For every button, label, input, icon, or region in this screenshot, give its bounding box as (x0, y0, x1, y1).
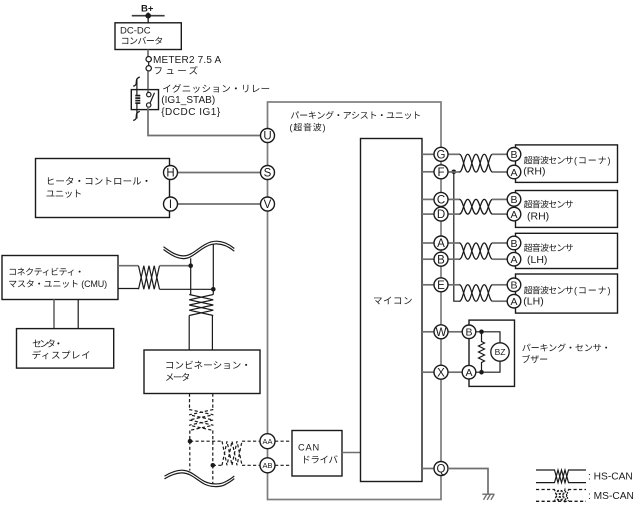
pin C (434, 192, 448, 206)
wire sensor corner RH bottom right (492, 171, 507, 173)
pin D (434, 207, 448, 221)
wire buzzer A to BZ (476, 361, 500, 372)
wire microcomputer to D (422, 213, 434, 215)
svg-text:超音波センサ: 超音波センサ (524, 283, 574, 296)
junction B+ dot (145, 13, 151, 19)
junction buzzer top (479, 330, 484, 335)
wire CMU to display left (53, 300, 55, 329)
svg-text:ディスプレイ: ディスプレイ (32, 348, 91, 362)
svg-text:D: D (437, 209, 445, 221)
wire twist to node1 (160, 265, 191, 267)
svg-text:(RH): (RH) (527, 210, 549, 222)
pin sensor LH A (507, 252, 521, 266)
svg-text:超音波センサ: 超音波センサ (524, 197, 574, 210)
legend MS-CAN lines (536, 490, 586, 502)
pin AB (260, 458, 275, 473)
wire between fuse terminals (148, 60, 150, 68)
wire fuse to relay (147, 71, 149, 89)
wire MS-CAN meter right (212, 394, 214, 410)
svg-text:ユニット: ユニット (46, 186, 83, 200)
wire continuation wavy top (164, 241, 235, 258)
svg-text:マイコン: マイコン (373, 293, 413, 307)
resistor in buzzer (479, 332, 485, 372)
twisted pair CMU (139, 266, 160, 290)
wire continuation hook bottom (133, 111, 140, 120)
pin buzzer B (462, 325, 476, 339)
svg-text:METER2 7.5 A: METER2 7.5 A (153, 55, 222, 66)
wire MS-CAN left below (189, 441, 191, 470)
svg-text:E: E (437, 280, 445, 292)
twisted pair bus vertical (189, 295, 213, 316)
twisted pair MS-CAN to AA AB (222, 441, 242, 465)
svg-text:A: A (510, 167, 517, 179)
wire microcomputer to F (422, 171, 434, 173)
wire AA to CAN driver (275, 440, 292, 442)
wire sensor RH top right (492, 198, 507, 200)
pin Q (434, 462, 448, 476)
wire CMU CAN-H (118, 265, 139, 267)
svg-text:C: C (437, 195, 445, 207)
wire sensor LH top right (492, 242, 507, 244)
legend HS-CAN lines (536, 470, 586, 483)
junction node CAN-H (188, 263, 193, 268)
wire buzzer B to BZ (476, 332, 500, 343)
pin E (434, 278, 448, 292)
svg-text:(LH): (LH) (523, 296, 543, 308)
wire DC-DC to fuse (147, 50, 149, 57)
microcomputer box (361, 139, 423, 482)
parking assist unit box (268, 102, 442, 500)
wire CMU CAN-L (118, 288, 139, 290)
buzzer BZ (491, 343, 509, 361)
svg-text:B: B (465, 327, 472, 339)
pin sensor corner RH B (507, 148, 521, 162)
wire B+ tick bar (132, 15, 165, 17)
wire sensor RH bottom right (492, 213, 507, 215)
relay K1 coil (135, 96, 140, 104)
svg-text:B: B (437, 254, 445, 266)
svg-text:超音波センサ: 超音波センサ (524, 153, 574, 166)
wire microcomputer to G (422, 153, 434, 155)
svg-text:CAN: CAN (298, 443, 319, 453)
relay K1 switch blade (150, 93, 155, 104)
svg-text:: HS-CAN: : HS-CAN (588, 472, 633, 483)
wire H to S (171, 172, 268, 174)
wire MS-CAN left to junction (189, 431, 191, 442)
pin H (164, 166, 178, 180)
wire MS-CAN right below (212, 465, 214, 483)
wire W to buzzer B (448, 331, 462, 333)
wire sensor RH top left (448, 198, 460, 200)
twisted pair sensor RH (460, 199, 493, 214)
pin G (434, 147, 448, 161)
wire CAN-H bus up (190, 258, 192, 294)
svg-text:A: A (510, 254, 517, 266)
wire MS-CAN right down (212, 431, 214, 466)
svg-text:B: B (510, 238, 517, 250)
ultrasonic sensor corner LH box (516, 274, 618, 313)
pin B (434, 252, 448, 266)
pin sensor corner LH B (507, 278, 521, 292)
twisted pair sensor LH (460, 243, 493, 259)
svg-text:A: A (510, 296, 517, 308)
svg-text:マスタ・ユニット (CMU): マスタ・ユニット (CMU) (8, 277, 107, 290)
wire bus down left (188, 316, 190, 351)
wire AB horizontal (213, 464, 222, 466)
svg-text:A: A (465, 367, 472, 379)
pin AA (260, 434, 275, 449)
svg-text:: MS-CAN: : MS-CAN (588, 491, 634, 502)
svg-text:X: X (437, 367, 445, 379)
wire CAN driver to microcomputer (342, 452, 361, 454)
twisted pair sensor corner RH (460, 154, 493, 172)
svg-text:B: B (510, 194, 517, 206)
pin sensor RH B (507, 193, 521, 207)
wire relay coil bottom lead (136, 103, 138, 118)
center display box (17, 329, 114, 369)
svg-text:コンバータ: コンバータ (121, 34, 164, 47)
wire microcomputer to E (422, 284, 434, 286)
wire sensor corner LH bottom right (492, 300, 507, 302)
svg-text:F: F (437, 167, 444, 179)
junction MS-CAN AA node (188, 439, 193, 444)
svg-text:ブザー: ブザー (521, 353, 548, 366)
svg-text:ドライバ: ドライバ (301, 452, 338, 466)
wire sensor corner RH top right (492, 153, 507, 155)
svg-text:G: G (437, 149, 446, 161)
pin A (434, 236, 448, 250)
svg-text:A: A (510, 209, 517, 221)
wire sensor RH bottom left (448, 213, 460, 215)
pin sensor RH A (507, 207, 521, 221)
wire sensor LH bottom left (448, 258, 460, 260)
ultrasonic sensor corner RH box (516, 145, 618, 183)
svg-text:メータ: メータ (165, 370, 191, 384)
svg-text:(IG1_STAB): (IG1_STAB) (161, 95, 215, 106)
pin I (164, 197, 178, 211)
twisted pair MS-CAN vertical (189, 410, 213, 431)
wire Q to ground (448, 469, 488, 495)
wire B+ stub (147, 13, 149, 24)
relay K1 box (131, 90, 158, 110)
legend HS-CAN twist (555, 470, 569, 483)
heater control unit box (36, 159, 170, 218)
svg-text:B: B (510, 149, 517, 161)
wire sensor LH top left (448, 242, 460, 244)
wire I to V (171, 203, 268, 205)
twisted pair sensor corner LH (460, 285, 493, 301)
wire microcomputer to W (422, 331, 434, 333)
svg-text:W: W (436, 327, 447, 339)
wire MS-CAN meter left (189, 394, 191, 410)
svg-text:超音波センサ: 超音波センサ (524, 241, 574, 254)
wire AA horizontal (190, 440, 222, 442)
wire sensor corner RH top left (448, 153, 460, 155)
svg-text:B+: B+ (141, 4, 154, 15)
DC-DC converter box (115, 23, 181, 50)
connectivity master unit box (2, 256, 118, 300)
pin X (434, 365, 448, 379)
pin sensor LH B (507, 236, 521, 250)
pin S (261, 166, 275, 180)
svg-text:AB: AB (262, 461, 272, 470)
pin U (261, 129, 275, 143)
svg-text:I: I (169, 199, 172, 211)
wire microcomputer to B (422, 258, 434, 260)
svg-text:U: U (263, 131, 271, 143)
wire F junction drop (454, 172, 461, 301)
wire relay to U (148, 107, 261, 136)
legend MS-CAN twist (555, 490, 569, 502)
CAN driver box (292, 431, 342, 477)
junction F node (452, 170, 457, 175)
wire sensor corner LH top right (492, 284, 507, 286)
svg-text:(RH): (RH) (523, 166, 545, 178)
wire microcomputer to Q (422, 468, 434, 470)
wire microcomputer to A (422, 242, 434, 244)
svg-text:(LH): (LH) (527, 254, 547, 266)
wire continuation hook top (133, 77, 140, 86)
junction MS-CAN AB node (211, 463, 216, 468)
svg-text:(超音波): (超音波) (290, 121, 326, 134)
pin sensor corner LH A (507, 294, 521, 308)
parking sensor buzzer box (469, 320, 515, 386)
pin F (434, 165, 448, 179)
svg-text:Q: Q (437, 464, 446, 476)
svg-text:BZ: BZ (495, 347, 506, 357)
wire microcomputer to X (422, 371, 434, 373)
junction buzzer bottom (479, 370, 484, 375)
wire bus down right (211, 316, 213, 351)
wire relay coil top lead (136, 79, 138, 96)
ultrasonic sensor RH box (516, 191, 618, 228)
wire CMU to display right (77, 300, 79, 329)
fuse F1 terminal bottom (146, 66, 151, 71)
junction node CAN-L (211, 287, 216, 292)
wire sensor corner LH top left (448, 284, 460, 286)
wire AB to CAN driver (275, 464, 292, 466)
wire twist to node2 (160, 288, 214, 290)
svg-text:H: H (166, 168, 174, 180)
relay K1 contact top (147, 92, 151, 96)
pin sensor corner RH A (507, 165, 521, 179)
wire relay contact feed (147, 90, 149, 93)
svg-text:{DCDC IG1}: {DCDC IG1} (161, 107, 221, 118)
svg-text:(コーナ): (コーナ) (574, 153, 611, 166)
ultrasonic sensor LH box (516, 233, 618, 268)
svg-text:V: V (264, 199, 272, 211)
svg-text:B: B (510, 280, 517, 292)
wire CAN-L bus up (212, 244, 214, 294)
svg-text:イグニッション・リレー: イグニッション・リレー (162, 81, 270, 95)
svg-text:A: A (437, 238, 445, 250)
ground chassis (482, 494, 494, 500)
wire continuation wavy bottom (165, 470, 235, 486)
wire sensor LH bottom right (492, 258, 507, 260)
wire X to buzzer A (448, 371, 462, 373)
pin V (261, 197, 275, 211)
pin buzzer A (462, 365, 476, 379)
wire microcomputer to C (422, 198, 434, 200)
fuse F1 terminal top (146, 57, 151, 62)
svg-text:AA: AA (262, 437, 272, 446)
relay K1 contact bottom (147, 103, 151, 107)
wire sensor corner RH bottom left (448, 171, 460, 173)
combination meter box (144, 350, 260, 394)
pin W (434, 325, 448, 339)
svg-text:(コーナ): (コーナ) (574, 283, 611, 296)
svg-text:S: S (264, 168, 272, 180)
wire twist to AB (242, 464, 261, 466)
wire twist to AA (242, 440, 261, 442)
